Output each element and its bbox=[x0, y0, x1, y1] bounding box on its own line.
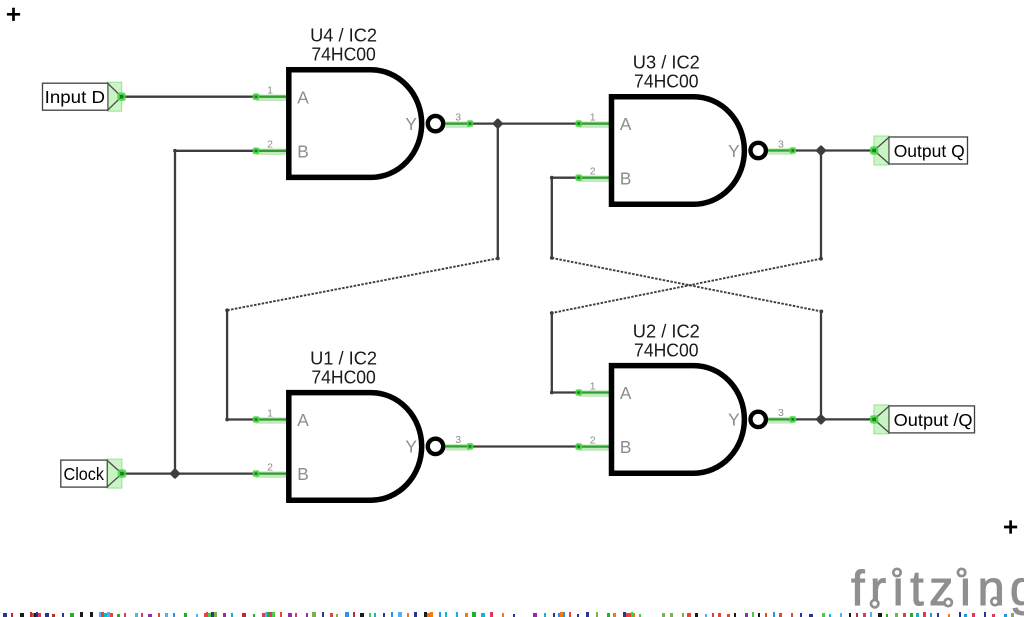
pin terminals U1 bbox=[253, 416, 260, 423]
gate body U4 bbox=[289, 70, 422, 178]
svg-text:2: 2 bbox=[590, 166, 596, 178]
ratsnest wire U4 Y to U1 A crossover bbox=[227, 258, 498, 310]
svg-text:1: 1 bbox=[590, 380, 596, 392]
inversion bubble U3 bbox=[751, 143, 766, 158]
svg-text:Output Q: Output Q bbox=[894, 141, 965, 161]
wire endpoint bend at U3 B bbox=[550, 176, 554, 180]
pin highlight halos U3 bbox=[579, 125, 793, 179]
pin 2 (B) leg U4 bbox=[256, 150, 289, 152]
net label "Clock" (clock input) bbox=[61, 459, 126, 488]
NAND gate U4 (74HC00) bbox=[253, 25, 474, 178]
pin highlight halos U1 bbox=[256, 421, 470, 475]
NAND gate U3 (74HC00) bbox=[575, 51, 796, 204]
svg-text:3: 3 bbox=[778, 407, 784, 419]
svg-text:A: A bbox=[297, 410, 309, 430]
pin highlight halos U2 bbox=[579, 394, 793, 448]
gate body U2 bbox=[612, 366, 745, 474]
pin highlight halos U4 bbox=[256, 98, 470, 152]
svg-text:U1 / IC2: U1 / IC2 bbox=[310, 347, 377, 368]
svg-text:1: 1 bbox=[267, 407, 273, 419]
part label U2 / 74HC00 bbox=[633, 320, 700, 360]
junction node U4 output node bbox=[492, 118, 503, 129]
svg-text:U3 / IC2: U3 / IC2 bbox=[633, 51, 700, 72]
NAND gate U1 (74HC00) bbox=[253, 347, 474, 500]
wire endpoint top of U1 A riser bbox=[225, 308, 229, 312]
wire U4 pin B horizontal bbox=[175, 150, 257, 152]
svg-text:Y: Y bbox=[728, 141, 740, 161]
junction node Q output node bbox=[815, 145, 826, 156]
gate body U3 bbox=[612, 97, 745, 205]
pin name labels U4 bbox=[297, 87, 417, 161]
NAND gate U2 (74HC00) bbox=[575, 320, 796, 473]
pin 3 (Y) leg U4 bbox=[445, 122, 470, 124]
pin 2 (B) leg U2 bbox=[579, 445, 612, 447]
wire Clock vertical to U4 pin B bbox=[174, 151, 176, 474]
cropped parts-bin icon strip along bottom edge bbox=[3, 612, 1014, 617]
svg-text:Input D: Input D bbox=[45, 87, 105, 107]
wire endpoint bend at U2 A bbox=[550, 391, 554, 395]
svg-text:U4 / IC2: U4 / IC2 bbox=[310, 25, 377, 46]
svg-text:A: A bbox=[297, 87, 309, 107]
fritzing watermark logo bbox=[851, 562, 1024, 616]
svg-text:2: 2 bbox=[590, 434, 596, 446]
pin name labels U2 bbox=[620, 383, 740, 457]
svg-text:2: 2 bbox=[267, 139, 273, 151]
svg-text:Y: Y bbox=[728, 410, 740, 430]
wire U3 Y to Output Q bbox=[793, 149, 874, 151]
wire riser to Output /Q node bbox=[820, 311, 822, 419]
crosshair plus mark bottom-right bbox=[1004, 520, 1017, 533]
svg-text:Y: Y bbox=[405, 114, 417, 134]
crosshair plus mark top-left bbox=[7, 8, 20, 21]
svg-text:74HC00: 74HC00 bbox=[634, 71, 699, 92]
svg-text:U2 / IC2: U2 / IC2 bbox=[633, 320, 700, 341]
wire U2 pin A riser bbox=[551, 313, 553, 393]
pin terminals U2 bbox=[575, 389, 582, 396]
pin terminals U4 bbox=[253, 93, 260, 100]
wire U1 pin A riser bbox=[226, 310, 228, 419]
wire endpoint bend at U4 B bbox=[173, 149, 177, 153]
inversion bubble U1 bbox=[428, 439, 443, 454]
gate body U1 bbox=[289, 393, 422, 501]
wire endpoint bend at U1 A bbox=[225, 418, 229, 422]
pin terminals U3 bbox=[575, 120, 582, 127]
wire endpoint top of Out/Q riser bbox=[819, 310, 823, 314]
svg-text:B: B bbox=[620, 437, 632, 457]
net label "Output /Q" (output /Q) bbox=[870, 405, 975, 434]
svg-text:74HC00: 74HC00 bbox=[311, 366, 376, 387]
pin 1 (A) leg U1 bbox=[256, 418, 289, 420]
pin 1 (A) leg U2 bbox=[579, 391, 612, 393]
wire endpoint end of U4 Y drop bbox=[496, 257, 500, 261]
wire endpoint top of U2 A riser bbox=[550, 311, 554, 315]
pin 3 (Y) leg U3 bbox=[768, 149, 793, 151]
wire U1 Y to U2 pin B bbox=[470, 445, 579, 447]
net label "Input D" (input D) bbox=[43, 82, 126, 111]
wire Q node vertical drop bbox=[820, 151, 822, 259]
pin number labels U4 bbox=[267, 85, 461, 151]
svg-text:B: B bbox=[297, 141, 309, 161]
wire U3 pin B horizontal bbox=[552, 177, 579, 179]
svg-text:1: 1 bbox=[267, 85, 273, 97]
wire endpoint end of Q node drop bbox=[819, 257, 823, 261]
pin 3 (Y) leg U1 bbox=[445, 445, 470, 447]
wire U2 Y to Output /Q bbox=[793, 418, 874, 420]
pin 1 (A) leg U4 bbox=[256, 96, 289, 98]
wire U4 Y node vertical drop bbox=[497, 124, 499, 259]
pin 2 (B) leg U1 bbox=[256, 472, 289, 474]
svg-text:Clock: Clock bbox=[64, 464, 105, 484]
pin number labels U1 bbox=[267, 407, 461, 473]
wire Input D to U4 pin A bbox=[122, 96, 258, 98]
svg-text:3: 3 bbox=[455, 434, 461, 446]
pin 2 (B) leg U3 bbox=[579, 177, 612, 179]
svg-text:A: A bbox=[620, 383, 632, 403]
part label U1 / 74HC00 bbox=[310, 347, 377, 387]
svg-text:3: 3 bbox=[778, 138, 784, 150]
junction node Clock node bbox=[169, 468, 180, 479]
ratsnest wire U3 B to U2 Y crossover bbox=[552, 258, 822, 312]
wire endpoint end of U3 B drop bbox=[550, 256, 554, 260]
pin number labels U2 bbox=[590, 380, 784, 446]
svg-text:1: 1 bbox=[590, 111, 596, 123]
pin 1 (A) leg U3 bbox=[579, 122, 612, 124]
wire Clock to U1 pin B bbox=[122, 472, 257, 474]
wire U4 Y to U3 pin A bbox=[470, 122, 579, 124]
svg-text:A: A bbox=[620, 114, 632, 134]
wire U2 pin A horizontal bbox=[552, 391, 579, 393]
ratsnest wire Q node to U2 A crossover bbox=[552, 259, 821, 313]
wire U1 pin A horizontal bbox=[227, 418, 257, 420]
svg-text:74HC00: 74HC00 bbox=[634, 339, 699, 360]
svg-text:3: 3 bbox=[455, 111, 461, 123]
svg-text:2: 2 bbox=[267, 461, 273, 473]
svg-text:Output /Q: Output /Q bbox=[894, 410, 973, 430]
pin name labels U1 bbox=[297, 410, 417, 484]
inversion bubble U4 bbox=[428, 116, 443, 131]
svg-text:B: B bbox=[297, 464, 309, 484]
pin name labels U3 bbox=[620, 114, 740, 188]
pin 3 (Y) leg U2 bbox=[768, 418, 793, 420]
part label U4 / 74HC00 bbox=[310, 25, 377, 65]
net label "Output Q" (output Q) bbox=[870, 136, 968, 165]
wire U3 pin B drop bbox=[551, 178, 553, 258]
pin number labels U3 bbox=[590, 111, 784, 177]
svg-text:74HC00: 74HC00 bbox=[311, 44, 376, 65]
part label U3 / 74HC00 bbox=[633, 51, 700, 91]
inversion bubble U2 bbox=[751, 412, 766, 427]
svg-text:Y: Y bbox=[405, 437, 417, 457]
svg-text:B: B bbox=[620, 168, 632, 188]
junction node /Q output node bbox=[815, 414, 826, 425]
